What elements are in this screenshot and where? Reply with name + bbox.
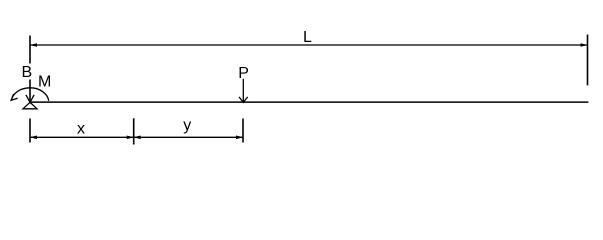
arrowhead x left [30,136,37,140]
wire: bottom extension line right [242,119,244,143]
arrowhead L right [581,43,588,47]
svg-text:L: L [303,29,312,46]
wire: left extension line upper segment [29,36,31,64]
wire: bottom extension line middle [133,118,135,144]
svg-text:B: B [22,64,33,81]
arrowhead L left [30,43,37,47]
wire: x dimension line [30,136,134,138]
wire: right extension line of L [587,35,589,86]
svg-text:P: P [238,65,249,82]
moment arc M [11,88,48,101]
wire: y dimension line [134,136,243,138]
moment arrowhead [11,94,18,100]
svg-text:M: M [38,74,51,91]
force P arrow line [242,79,244,102]
support: pin triangle [23,102,37,109]
svg-text:x: x [77,120,85,137]
node A: open arrowhead at support [26,95,34,103]
wire: top dimension line L [30,44,588,46]
svg-text:y: y [183,117,191,134]
wire: left force line below B [29,80,31,103]
arrowhead x right [127,136,134,140]
arrowhead y left [133,136,140,140]
force P open arrowhead [239,97,248,103]
wire: bottom extension line left [29,119,31,143]
arrowhead y right [236,136,243,140]
wire: beam [30,101,588,103]
